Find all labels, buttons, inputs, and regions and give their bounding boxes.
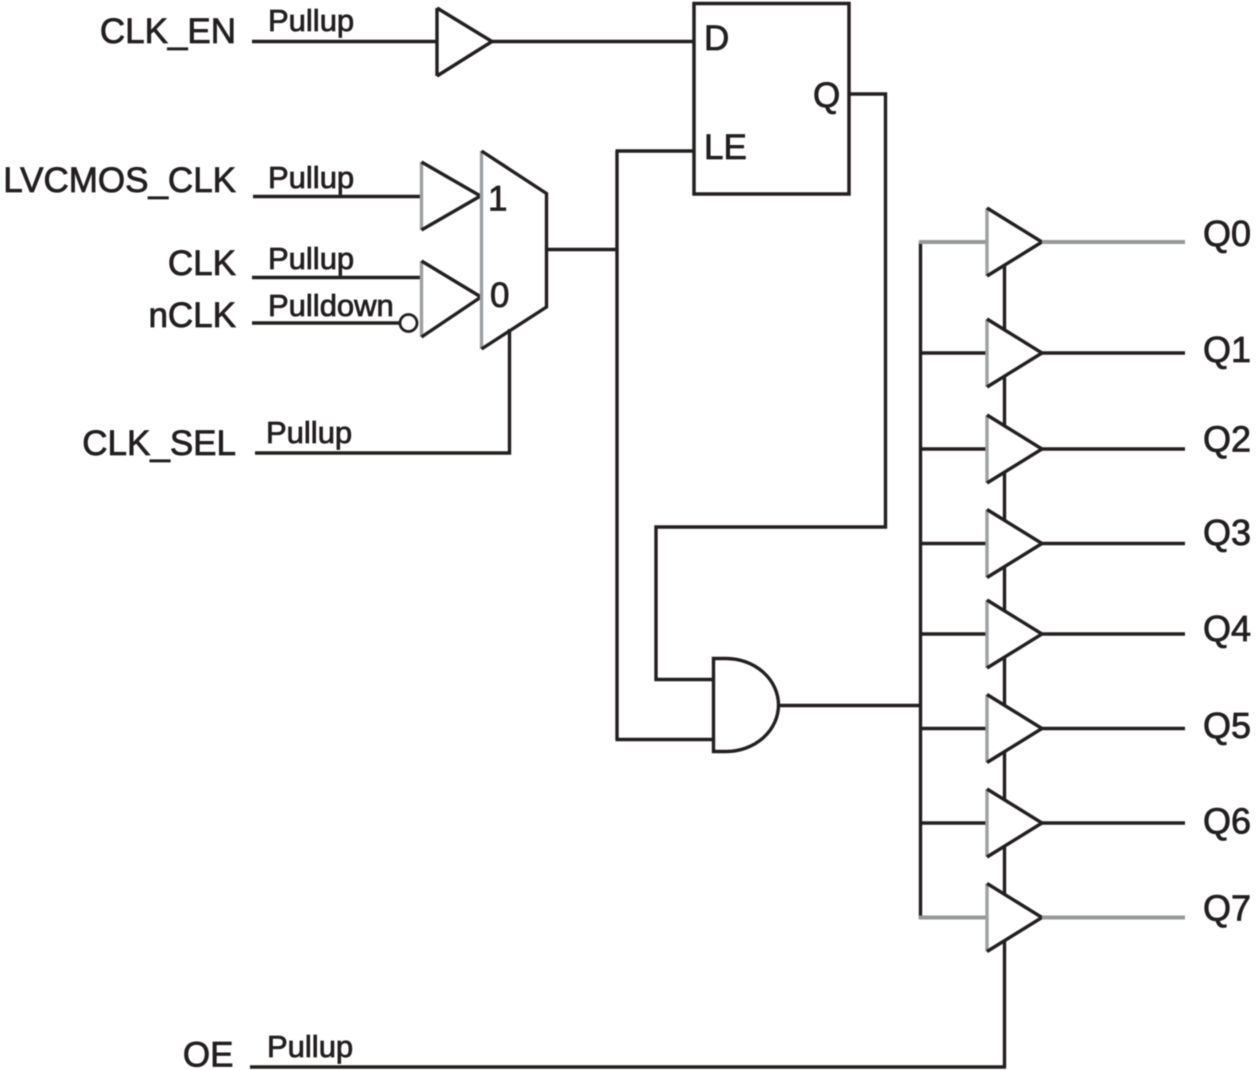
wire Q0 output — [1042, 240, 1185, 244]
wire stub to Q2 buffer — [919, 447, 987, 450]
latch U1 box — [694, 4, 849, 195]
svg-text:Q0: Q0 — [1203, 213, 1251, 254]
output buffer Q7 — [987, 884, 1042, 952]
wire Q7 output — [1042, 916, 1185, 920]
svg-text:Pullup: Pullup — [268, 3, 354, 38]
wire CLK_EN input — [252, 40, 437, 43]
wire B1 output to latch D — [492, 40, 694, 43]
svg-text:Q5: Q5 — [1203, 705, 1251, 746]
svg-text:Pullup: Pullup — [268, 160, 354, 195]
svg-text:Pullup: Pullup — [268, 241, 354, 276]
svg-text:D: D — [704, 19, 729, 58]
wire Q6 output — [1042, 821, 1185, 824]
wire buffer input bus vertical — [919, 242, 922, 919]
wire Q5 output — [1042, 727, 1185, 730]
svg-text:nCLK: nCLK — [148, 296, 236, 335]
svg-text:LE: LE — [704, 128, 747, 167]
output buffer Q3 — [987, 510, 1042, 578]
output buffer Q0 — [987, 208, 1042, 276]
svg-text:Pullup: Pullup — [266, 415, 352, 450]
wire stub to Q0 buffer — [919, 240, 987, 244]
svg-text:Q2: Q2 — [1203, 419, 1251, 460]
output buffer Q2 — [987, 415, 1042, 483]
buffer B2 (LVCMOS_CLK buffer) — [422, 162, 481, 230]
svg-text:Q4: Q4 — [1203, 608, 1251, 649]
svg-text:Q: Q — [813, 76, 840, 115]
wire stub to Q3 buffer — [919, 542, 987, 545]
wire stub to Q5 buffer — [919, 727, 987, 730]
svg-text:Pulldown: Pulldown — [268, 288, 394, 323]
wire CLK input — [252, 276, 422, 279]
svg-text:1: 1 — [488, 180, 507, 219]
svg-text:Q6: Q6 — [1203, 801, 1251, 842]
wire output-enable vertical (OE net) — [1003, 265, 1006, 1067]
output buffer Q4 — [987, 600, 1042, 668]
svg-text:CLK_SEL: CLK_SEL — [82, 424, 236, 463]
inversion bubble on nCLK input — [400, 315, 417, 332]
svg-text:0: 0 — [490, 276, 509, 315]
svg-text:OE: OE — [183, 1036, 234, 1070]
output buffer Q6 — [987, 789, 1042, 857]
wire LE net to AND gate lower input — [616, 738, 716, 741]
wire CLK_SEL to mux select — [255, 329, 510, 453]
AND gate G1 — [714, 659, 779, 752]
wire LVCMOS_CLK input — [253, 195, 422, 198]
wire Q1 output — [1042, 351, 1185, 354]
wire stub to Q4 buffer — [919, 632, 987, 635]
buffer B1 (CLK_EN input buffer) — [437, 8, 492, 76]
wire latch Q output — [656, 94, 886, 680]
wire Q2 output — [1042, 447, 1185, 450]
wire nCLK input — [252, 321, 400, 324]
buffer B3 (CLK/nCLK differential buffer) — [422, 261, 482, 337]
mux M1 — [482, 151, 547, 349]
svg-text:LVCMOS_CLK: LVCMOS_CLK — [3, 161, 236, 200]
wire OE input — [250, 1065, 1006, 1068]
svg-text:Q1: Q1 — [1203, 329, 1251, 370]
svg-text:Pullup: Pullup — [267, 1029, 353, 1064]
svg-text:Q7: Q7 — [1203, 888, 1251, 929]
wire AND output to buffer bus — [779, 704, 922, 707]
wire LE net to latch — [616, 149, 695, 152]
svg-text:Q3: Q3 — [1203, 512, 1251, 553]
wire LE vertical net — [615, 151, 618, 740]
wire stub to Q1 buffer — [919, 351, 987, 354]
wire stub to Q6 buffer — [919, 821, 987, 824]
wire Q4 output — [1042, 632, 1185, 635]
svg-text:CLK: CLK — [168, 244, 236, 283]
output buffer Q5 — [987, 695, 1042, 763]
svg-text:CLK_EN: CLK_EN — [100, 12, 236, 51]
output buffer Q1 — [987, 319, 1042, 387]
wire mux output to LE node — [547, 248, 619, 251]
wire Q3 output — [1042, 542, 1185, 545]
wire stub to Q7 buffer — [919, 916, 987, 920]
